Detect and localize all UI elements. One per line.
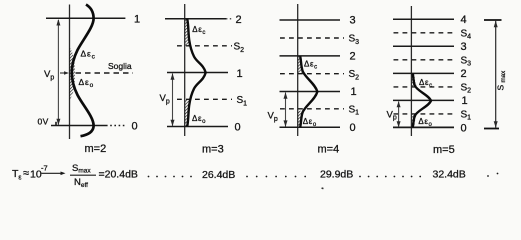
Vp bottom arrowhead — [397, 121, 401, 127]
dot run 3 — [359, 176, 421, 178]
svg-text:3: 3 — [461, 41, 467, 53]
S2 dashed line — [280, 73, 344, 75]
level 2 line — [393, 72, 454, 74]
Vp top arrowhead — [397, 101, 401, 107]
bracket bottom bar — [484, 128, 499, 130]
bracket top arrowhead — [494, 21, 498, 28]
svg-text:1: 1 — [351, 86, 357, 98]
Vp measure line — [57, 20, 59, 125]
svg-text:1: 1 — [134, 14, 140, 26]
dot run 1 — [148, 176, 192, 178]
Vp measure line — [398, 101, 400, 127]
level 0 line — [167, 126, 228, 128]
hatched region top — [185, 19, 191, 46]
svg-text:32.4dB: 32.4dB — [433, 169, 466, 181]
S3 dashed line — [280, 37, 344, 39]
signal pdf curve — [413, 74, 431, 128]
hatched region bottom — [298, 111, 304, 127]
S1 dashed line — [280, 108, 344, 110]
svg-text:0V: 0V — [38, 117, 49, 127]
svg-text:1: 1 — [462, 95, 468, 107]
arrow — [42, 172, 63, 174]
level 2 line — [165, 18, 226, 20]
svg-text:m=5: m=5 — [433, 144, 455, 156]
Vp bottom arrowhead — [56, 119, 60, 126]
level 1 line — [280, 91, 341, 93]
signal pdf curve — [72, 5, 94, 137]
dot run 2 — [246, 176, 306, 178]
Vp top arrowhead — [284, 92, 288, 99]
Vp top arrowhead — [171, 73, 175, 80]
S3 dashed line — [394, 59, 456, 61]
Vp bottom arrowhead — [171, 120, 175, 127]
svg-text:m=2: m=2 — [85, 143, 107, 155]
svg-text:=20.4dB: =20.4dB — [99, 169, 138, 181]
0V tick — [55, 122, 57, 126]
S4 dashed line — [394, 32, 456, 34]
S1 dashed line — [177, 98, 232, 100]
axis — [184, 4, 186, 136]
bracket bottom arrowhead — [494, 121, 498, 128]
bracket vertical arrow line — [495, 21, 497, 128]
signal pdf curve — [187, 19, 206, 127]
level 0 line — [51, 125, 106, 127]
svg-text:0: 0 — [350, 122, 356, 134]
level 0 line — [280, 126, 341, 128]
svg-text:0: 0 — [235, 122, 241, 134]
Soglia dashed line — [76, 72, 134, 74]
Vp measure line — [285, 93, 287, 127]
svg-text:26.4dB: 26.4dB — [202, 169, 235, 181]
level 4 line — [393, 18, 454, 20]
level 1 line — [393, 99, 454, 101]
level 1 line — [46, 17, 125, 19]
S2 dashed line — [177, 45, 232, 47]
S2 dashed line — [394, 86, 456, 88]
axis — [410, 6, 412, 136]
speck under 29.9dB — [321, 187, 323, 189]
svg-text:1: 1 — [237, 68, 243, 80]
svg-text:2: 2 — [461, 68, 467, 80]
svg-text:m=3: m=3 — [202, 144, 224, 156]
S1 dashed line — [394, 113, 456, 115]
level 1 line — [167, 72, 228, 74]
level 2 line — [280, 55, 341, 57]
level 3 line — [280, 19, 341, 21]
svg-text:2: 2 — [236, 14, 242, 26]
hatched region top — [412, 74, 417, 87]
trailing dots — [487, 173, 498, 177]
svg-text:m=4: m=4 — [318, 144, 340, 156]
svg-text:3: 3 — [350, 15, 356, 27]
svg-text:4: 4 — [461, 14, 467, 26]
hatched error region — [69, 47, 75, 101]
hatched region bottom — [185, 100, 191, 127]
svg-text:29.9dB: 29.9dB — [320, 169, 353, 181]
level 0 line — [393, 126, 454, 128]
level 3 line — [393, 45, 454, 47]
mid pointer arrow — [60, 72, 65, 74]
svg-text:2: 2 — [350, 51, 356, 63]
svg-text:Soglia: Soglia — [108, 61, 132, 71]
svg-text:0: 0 — [132, 121, 138, 133]
Vp bottom arrowhead — [284, 120, 288, 127]
axis — [297, 4, 299, 136]
Vp top arrowhead — [56, 19, 60, 26]
svg-text:≈: ≈ — [23, 168, 29, 180]
bracket top bar — [484, 19, 502, 21]
hatched region top — [298, 56, 304, 72]
signal pdf curve — [300, 56, 317, 127]
svg-text:-7: -7 — [41, 163, 48, 172]
fraction bar — [70, 174, 96, 176]
axis — [69, 5, 71, 140]
Vp measure line — [172, 74, 174, 127]
hatched region bottom — [412, 114, 417, 127]
svg-text:0: 0 — [461, 122, 467, 134]
